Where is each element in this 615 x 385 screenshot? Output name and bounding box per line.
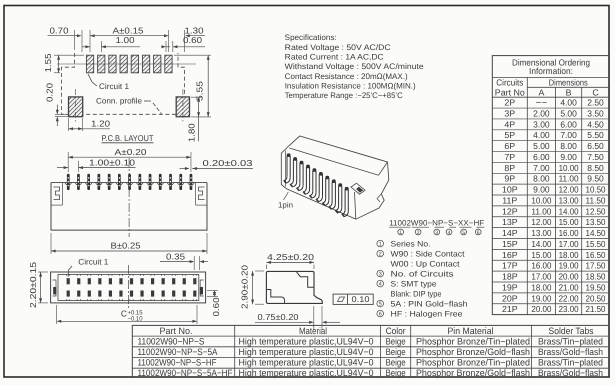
svg-text:Conn. profile: Conn. profile [96,97,143,106]
svg-text:5.00: 5.00 [560,108,577,118]
svg-text:17.50: 17.50 [586,261,606,271]
dimension 0.60 [161,35,205,52]
svg-text:Rated Current : 1A AC,DC: Rated Current : 1A AC,DC [285,53,384,62]
dimension 2.20±0.15 [28,262,48,308]
svg-text:1.55: 1.55 [43,53,53,72]
svg-text:11002W90−NP−S−5A−HF: 11002W90−NP−S−5A−HF [138,368,233,378]
top view right end latch [200,280,204,296]
svg-text:20.00: 20.00 [531,304,551,314]
svg-text:13.00: 13.00 [531,228,551,238]
front view body outline [51,183,207,231]
svg-text:5A : PIN Gold−flash: 5A : PIN Gold−flash [391,299,468,308]
svg-text:Beige: Beige [386,336,406,346]
svg-text:Phosphor Bronze/Gold−flash: Phosphor Bronze/Gold−flash [416,347,530,357]
svg-text:Beige: Beige [386,347,406,357]
dimension B±0.25 (front view width) [51,233,207,254]
isometric pin row (10 SMT leads) [284,153,349,216]
svg-text:B±0.25: B±0.25 [111,240,141,250]
top view body outline [51,272,206,303]
svg-text:Brass/Gold−flash: Brass/Gold−flash [538,347,603,357]
dimension 1.30 [185,26,206,53]
svg-text:7.00: 7.00 [533,163,550,173]
svg-text:Circuit 1: Circuit 1 [78,257,109,266]
top view left end latch [53,280,57,296]
svg-text:12.00: 12.00 [531,217,551,227]
svg-text:8.00: 8.00 [560,141,577,151]
dimension 2.90±0.20 [240,265,265,309]
svg-text:4: 4 [379,282,382,288]
svg-text:3P: 3P [504,108,515,118]
svg-text:6.00: 6.00 [560,119,577,129]
svg-text:16.00: 16.00 [559,228,579,238]
svg-text:No. of Circuits: No. of Circuits [391,269,454,278]
svg-text:19.00: 19.00 [531,293,551,303]
svg-text:C: C [121,309,127,319]
svg-text:12.00: 12.00 [559,185,579,195]
svg-text:5.00: 5.00 [533,141,550,151]
svg-text:5.50: 5.50 [587,130,604,140]
svg-text:Part No.: Part No. [160,326,193,336]
svg-text:17.00: 17.00 [559,239,579,249]
svg-text:Contact Resistance : 20mΩ(M: Contact Resistance : 20mΩ(MAX.) [285,72,408,81]
svg-text:Information:: Information: [529,66,573,76]
svg-text:1: 1 [399,230,402,236]
svg-text:Solder Tabs: Solder Tabs [549,326,594,336]
svg-text:3: 3 [379,272,382,278]
svg-text:Part No: Part No [495,88,525,98]
svg-text:11002W90−NP−S−XX−HF: 11002W90−NP−S−XX−HF [389,218,484,227]
svg-text:10.50: 10.50 [586,185,606,195]
flatness tolerance frame 0.10 [333,294,373,304]
svg-text:2P: 2P [504,98,515,108]
svg-text:23.00: 23.00 [559,304,579,314]
svg-text:HF : Halogen Free: HF : Halogen Free [391,309,464,318]
PCB layout pad row centerline [57,63,196,65]
svg-text:Phosphor Bronze/Tin−plated: Phosphor Bronze/Tin−plated [416,336,530,346]
svg-text:15.00: 15.00 [559,217,579,227]
svg-text:4P: 4P [504,119,515,129]
isometric connector body [281,136,389,219]
svg-text:0.35: 0.35 [166,251,185,261]
svg-text:7P: 7P [504,152,515,162]
svg-text:4.25±0.20: 4.25±0.20 [267,252,314,262]
svg-text:11P: 11P [502,195,517,205]
svg-text:11002W90−NP−S: 11002W90−NP−S [138,336,205,346]
dimension 1.80 [187,97,203,142]
svg-text:14P: 14P [502,228,518,238]
svg-text:9P: 9P [504,174,515,184]
part number material table [132,325,609,377]
svg-text:0.20±0.03: 0.20±0.03 [203,158,253,168]
svg-text:11002W90−NP−S−5A: 11002W90−NP−S−5A [138,347,219,357]
PCB layout right pad centerline [182,89,184,122]
svg-text:6: 6 [477,230,480,236]
svg-text:14.50: 14.50 [586,228,606,238]
svg-text:18.00: 18.00 [531,282,551,292]
svg-text:8.00: 8.00 [533,174,550,184]
svg-text:Rated Voltage : 50V AC/DC: Rated Voltage : 50V AC/DC [285,43,391,52]
svg-text:Circuit 1: Circuit 1 [99,82,130,91]
svg-text:7.50: 7.50 [587,152,604,162]
svg-text:Specifications:: Specifications: [285,33,337,42]
svg-text:Phosphor Bronze/Gold−flash: Phosphor Bronze/Gold−flash [416,368,530,378]
svg-text:0.10: 0.10 [352,295,371,304]
dimension A±0.20 (front view) [68,147,191,172]
svg-text:5: 5 [462,230,465,236]
svg-text:1.80: 1.80 [187,123,197,142]
svg-text:Brass/Tin−plated: Brass/Tin−plated [538,336,603,346]
svg-text:B: B [566,87,572,97]
top view center line [127,265,129,308]
isometric front-right latch tab [351,183,365,194]
dimension 0.35 [160,251,208,270]
PCB layout pad row (8 hatched pads) [86,55,172,73]
specifications text block [285,33,425,100]
svg-text:9.00: 9.00 [533,185,550,195]
svg-text:S: SMT type: S: SMT type [391,279,438,288]
svg-text:3: 3 [435,230,438,236]
svg-text:Phosphor Bronze/Tin−plated: Phosphor Bronze/Tin−plated [416,358,530,368]
isometric right solder tab mark [377,194,381,202]
PCB layout left mount pad [69,97,83,117]
svg-text:5.55: 5.55 [194,81,204,101]
svg-text:10.00: 10.00 [559,163,579,173]
svg-text:2.90±0.20: 2.90±0.20 [240,265,250,309]
svg-text:1.00±0.10: 1.00±0.10 [89,158,135,168]
svg-text:21.50: 21.50 [586,304,606,314]
svg-text:−−: −− [535,98,547,108]
svg-text:2.20±0.15: 2.20±0.15 [28,262,38,308]
ordering part number 11002W90-NP-S-XX-HF [389,218,484,227]
svg-text:8.50: 8.50 [587,163,604,173]
svg-text:5P: 5P [504,130,515,140]
svg-text:2: 2 [417,230,420,236]
svg-text:Pin Material: Pin Material [448,326,494,336]
svg-text:0.60: 0.60 [211,297,221,316]
dimension A±0.15 [90,26,169,53]
label 1pin [278,192,293,210]
svg-text:High temperature plastic,UL9: High temperature plastic,UL94V−0 [239,358,374,368]
svg-text:1.00: 1.00 [116,35,135,45]
svg-text:17.00: 17.00 [531,272,551,282]
svg-text:14.00: 14.00 [531,239,551,249]
ordering legend list [377,239,468,318]
PCB layout left pad centerline [75,89,77,122]
svg-text:8P: 8P [504,163,515,173]
svg-text:Color: Color [386,326,406,336]
svg-text:1: 1 [379,242,382,248]
svg-text:14.00: 14.00 [559,206,579,216]
svg-text:6: 6 [379,312,382,318]
svg-text:Brass/Gold−flash: Brass/Gold−flash [538,368,603,378]
svg-text:20P: 20P [502,293,518,303]
svg-text:13.00: 13.00 [559,195,579,205]
svg-text:22.00: 22.00 [559,293,579,303]
svg-text:18.00: 18.00 [559,250,579,260]
front view left latch mark [54,187,60,200]
svg-text:Withstand Voltage : 500V A: Withstand Voltage : 500V AC/minute [285,62,425,71]
svg-text:5: 5 [379,302,382,308]
dimension 4.25±0.20 [266,252,314,269]
svg-text:15P: 15P [502,239,518,249]
svg-text:W90 : Side Contact: W90 : Side Contact [391,249,466,258]
top view slot grid (13 x 2 contacts) [67,274,197,300]
PCB layout right mount pad [176,97,189,117]
svg-text:Circuits: Circuits [496,78,524,88]
svg-text:19.50: 19.50 [586,282,606,292]
svg-text:16P: 16P [502,250,518,260]
svg-text:A±0.20: A±0.20 [115,147,147,157]
dimension 0.20 [45,83,68,126]
svg-text:4: 4 [448,230,451,236]
svg-text:18.50: 18.50 [586,272,606,282]
label Circuit 1 (top view) [68,257,109,277]
svg-text:17P: 17P [502,261,518,271]
dimension 0.70 [48,26,83,53]
svg-text:3.50: 3.50 [587,108,604,118]
svg-text:High temperature plastic,UL9: High temperature plastic,UL94V−0 [239,368,374,378]
svg-text:Material: Material [299,326,327,336]
svg-text:10.00: 10.00 [531,195,551,205]
svg-text:Series No.: Series No. [391,239,431,248]
svg-text:20.50: 20.50 [586,293,606,303]
svg-text:4.00: 4.00 [560,98,577,108]
svg-text:9.50: 9.50 [587,174,604,184]
svg-text:2.50: 2.50 [587,98,604,108]
svg-text:2.00: 2.00 [533,108,550,118]
svg-text:11.50: 11.50 [586,195,606,205]
ordering code item circles 1-6 [398,229,481,236]
dimension 1.20 [69,118,111,131]
svg-text:0.75±0.20: 0.75±0.20 [258,312,299,322]
svg-text:Temperature Range :−25’C~+85: Temperature Range :−25’C~+85’C [285,91,403,100]
svg-text:3.00: 3.00 [533,119,550,129]
svg-text:1.20: 1.20 [91,119,110,129]
front view pin row (13 pins) [65,174,194,190]
svg-text:16.00: 16.00 [531,261,551,271]
dimension 0.75±0.20 [255,306,340,330]
svg-text:9.00: 9.00 [560,152,577,162]
svg-text:Beige: Beige [386,368,406,378]
svg-text:W00 : Up Contact: W00 : Up Contact [391,259,461,268]
svg-text:13P: 13P [502,217,518,227]
svg-text:Beige: Beige [386,358,406,368]
svg-text:12.50: 12.50 [586,206,606,216]
svg-text:Dimensions: Dimensions [549,77,588,87]
svg-text:11.00: 11.00 [531,206,551,216]
svg-text:6.50: 6.50 [587,141,604,151]
svg-text:A: A [538,87,544,97]
dimension 0.20±0.03 (pin width) [180,158,254,170]
svg-text:19.00: 19.00 [559,261,579,271]
svg-text:High temperature plastic,UL9: High temperature plastic,UL94V−0 [239,336,374,346]
svg-text:1pin: 1pin [278,201,293,210]
svg-text:Insulation Resistance : 100: Insulation Resistance : 100MΩ(MIN.) [285,81,416,90]
svg-text:10P: 10P [502,185,518,195]
label Conn. profile [96,97,162,115]
title P.C.B. LAYOUT [102,133,154,143]
svg-text:High temperature plastic,UL9: High temperature plastic,UL94V−0 [239,347,374,357]
dimension 1.55 (pad height) [43,53,84,73]
svg-text:C: C [592,87,599,97]
dimension 1.00±0.10 (pin pitch) [57,158,136,172]
label Circuit 1 (PCB layout) [88,74,130,91]
svg-text:21.00: 21.00 [559,282,579,292]
svg-text:6.00: 6.00 [533,152,550,162]
svg-text:16.50: 16.50 [586,250,606,260]
dimension C +0.15/-0.10 [57,305,197,324]
front view center line [128,158,130,237]
svg-text:0.60: 0.60 [183,35,202,45]
PCB layout connector profile dashed outline [62,53,185,114]
svg-text:12P: 12P [502,206,518,216]
svg-text:15.50: 15.50 [586,239,606,249]
svg-text:0.70: 0.70 [50,26,69,36]
svg-text:20.00: 20.00 [559,272,579,282]
svg-text:15.00: 15.00 [531,250,551,260]
svg-text:Brass/Tin−plated: Brass/Tin−plated [538,358,603,368]
svg-text:13.50: 13.50 [586,217,606,227]
svg-text:19P: 19P [502,282,518,292]
svg-text:7.00: 7.00 [560,130,577,140]
dimensional ordering information table [492,56,609,315]
dimension 5.55 [174,55,211,117]
svg-text:P.C.B. LAYOUT: P.C.B. LAYOUT [102,133,154,143]
svg-text:18P: 18P [502,272,518,282]
svg-text:21P: 21P [502,304,518,314]
svg-text:11.00: 11.00 [559,174,579,184]
svg-text:0.20: 0.20 [45,83,55,102]
dimension 0.60 [207,291,221,317]
svg-text:Blank: DIP type: Blank: DIP type [391,289,443,298]
svg-text:4.50: 4.50 [587,119,604,129]
svg-text:6P: 6P [504,141,515,151]
dimension 1.00 (pad pitch) [82,35,140,52]
svg-text:2: 2 [379,252,382,258]
svg-text:11002W90−NP−S−HF: 11002W90−NP−S−HF [138,358,217,368]
svg-text:4.00: 4.00 [533,130,550,140]
front view right latch mark [199,187,205,200]
side view profile outline [266,271,322,303]
